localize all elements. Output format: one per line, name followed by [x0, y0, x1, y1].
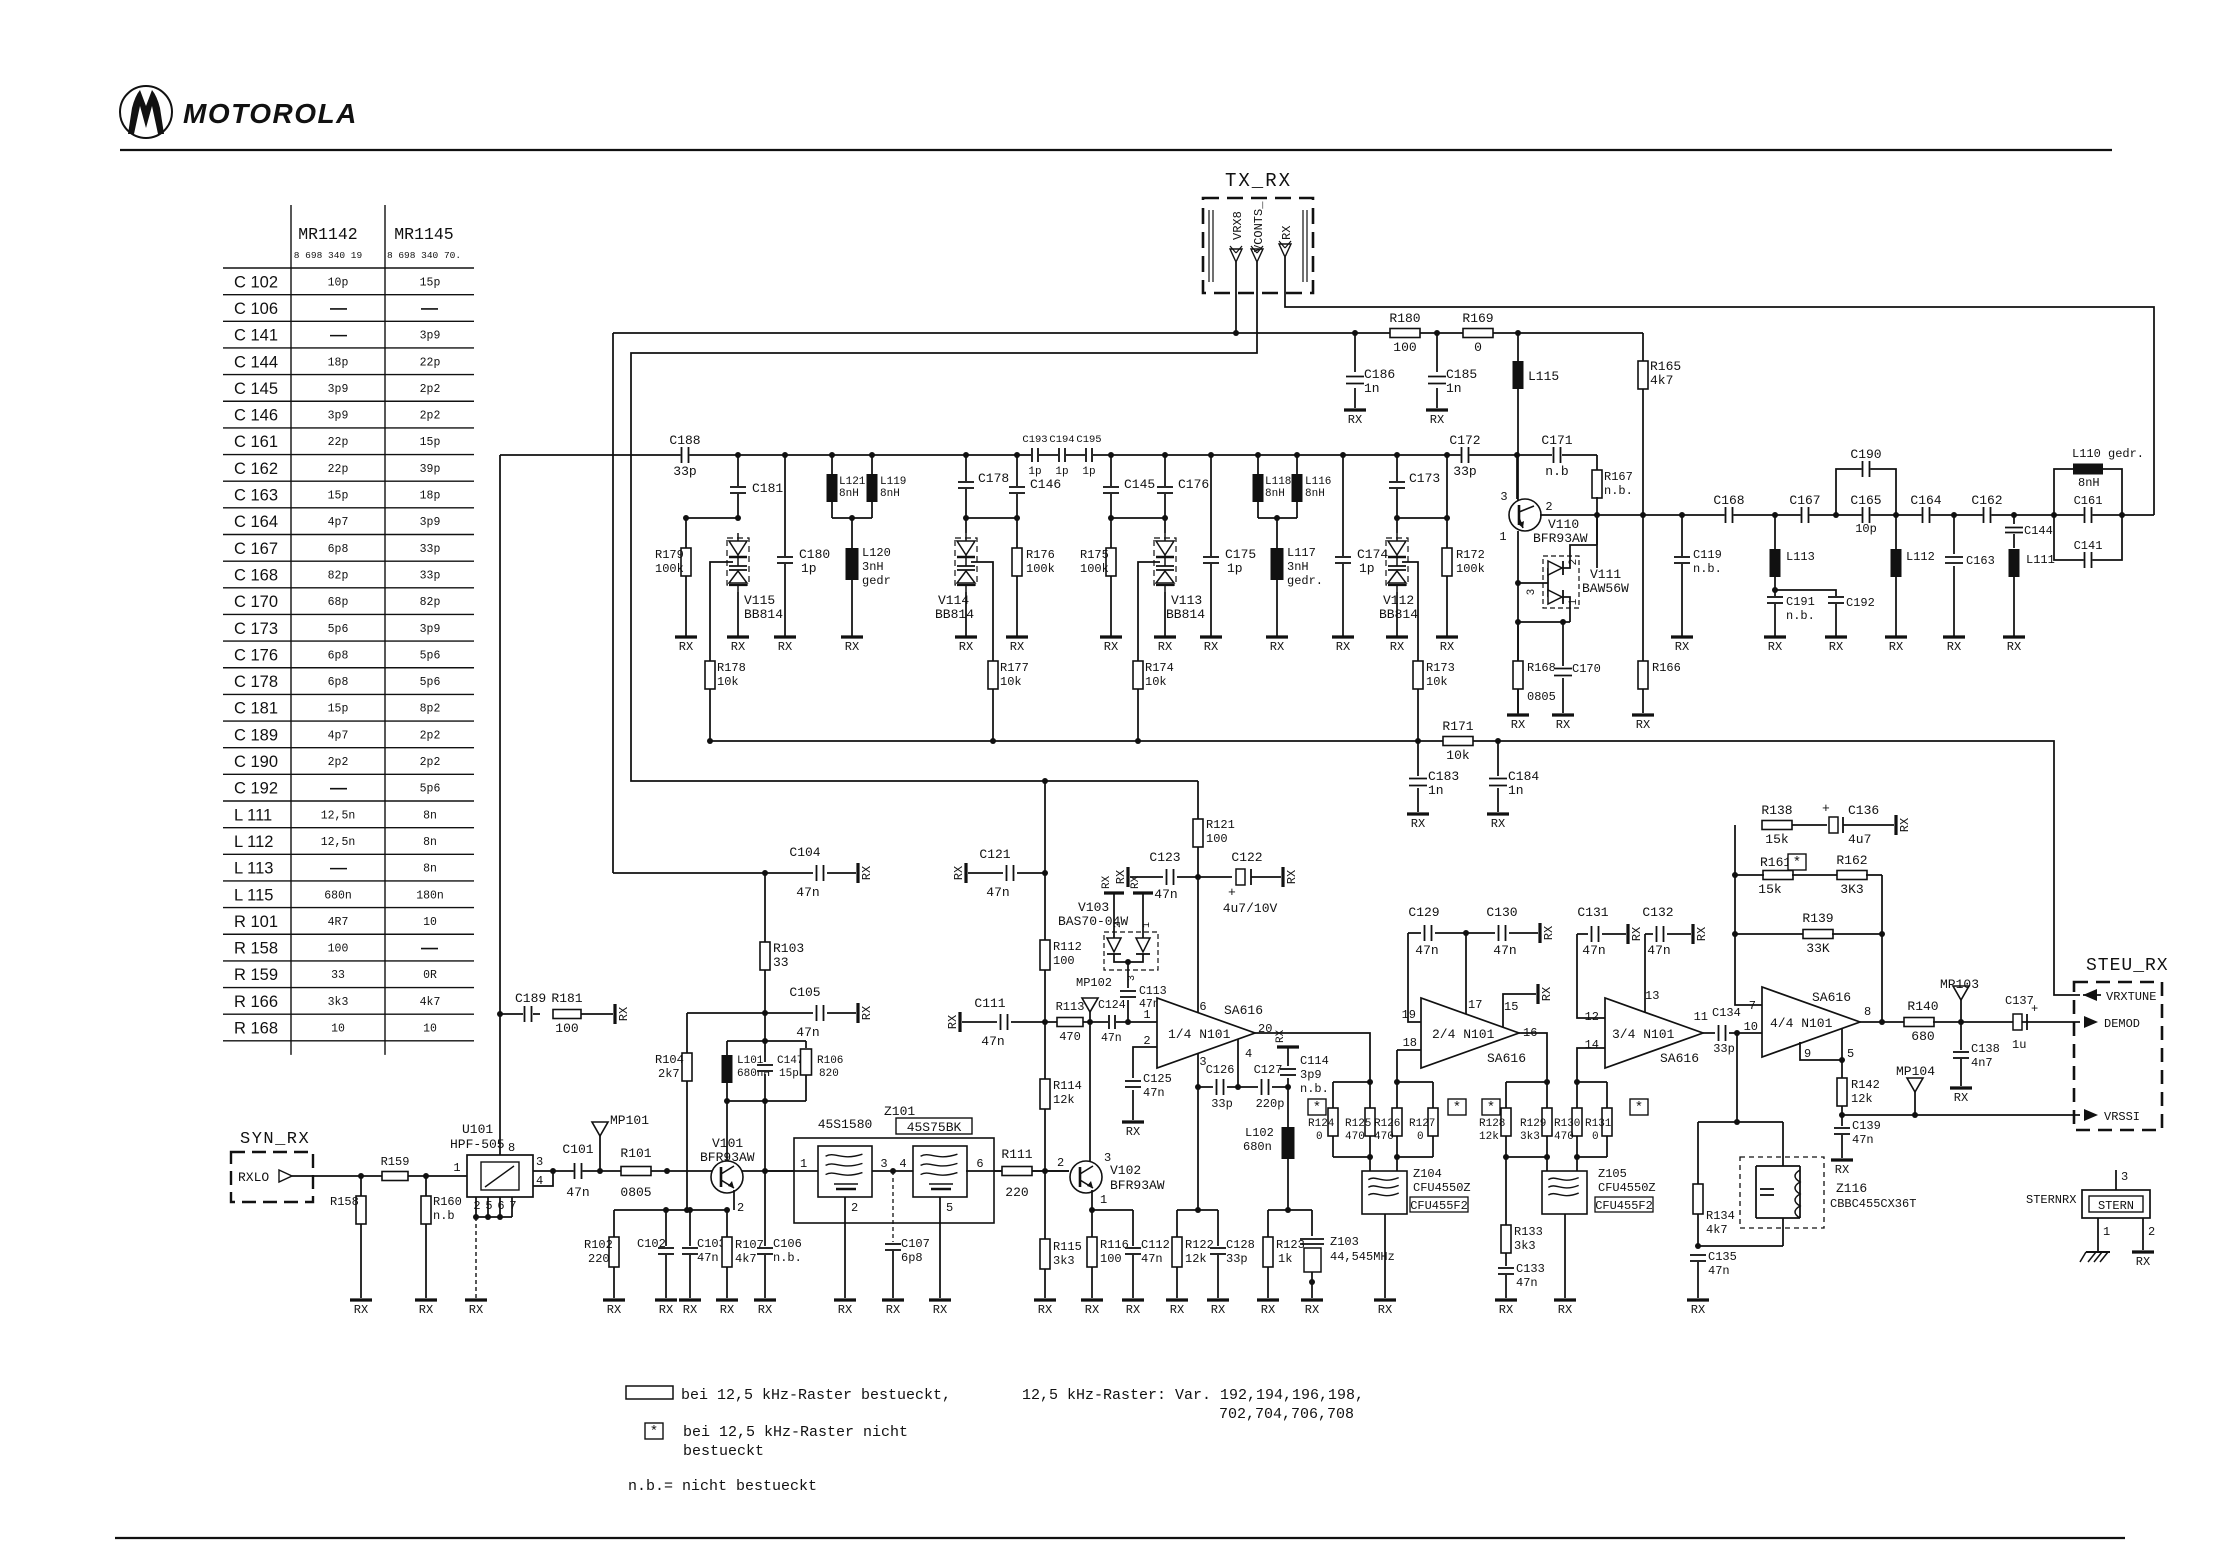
- wire U101 ground pins: [475, 1197, 477, 1217]
- table row L111: [223, 800, 474, 802]
- svg-text:8: 8: [1864, 1005, 1871, 1019]
- svg-text:220: 220: [1005, 1185, 1028, 1200]
- svg-text:*: *: [650, 1424, 658, 1440]
- wire C146 junction to V114: [966, 517, 1017, 519]
- wire varactor segment 2: [1111, 517, 1165, 519]
- svg-text:RX: RX: [860, 866, 874, 880]
- svg-text:RX: RX: [1430, 413, 1444, 427]
- svg-text:RXLO: RXLO: [238, 1170, 269, 1185]
- svg-text:C112: C112: [1141, 1238, 1170, 1252]
- svg-text:C167: C167: [1789, 493, 1820, 508]
- capacitor C173: [1396, 455, 1398, 481]
- inductor L113: [1774, 515, 1776, 549]
- pin VRXTUNE of STEU_RX: [2083, 989, 2097, 1001]
- ground RX under R123: [1257, 1298, 1279, 1301]
- resistor R161 15k: [1763, 871, 1793, 880]
- wire pin3 down: [1197, 1053, 1199, 1210]
- node C176 stub: [1162, 452, 1168, 458]
- svg-text:4p7: 4p7: [328, 729, 349, 742]
- resistor R102 220: [613, 1210, 615, 1238]
- svg-text:8n: 8n: [423, 863, 437, 876]
- svg-text:2p2: 2p2: [420, 383, 441, 396]
- wire collector output to Z101: [764, 1101, 766, 1171]
- ground RX under C135: [1687, 1298, 1709, 1301]
- svg-text:RX: RX: [959, 640, 973, 654]
- svg-text:C171: C171: [1541, 433, 1572, 448]
- svg-text:47n: 47n: [566, 1185, 589, 1200]
- wire VRX8 rail: [1235, 262, 1237, 333]
- svg-text:0: 0: [1592, 1131, 1599, 1143]
- ground RX right of C105: [856, 1003, 859, 1023]
- wire R161 left join: [1735, 874, 1764, 876]
- svg-text:L 113: L 113: [234, 860, 273, 878]
- svg-text:Z104: Z104: [1413, 1167, 1442, 1181]
- svg-text:100: 100: [328, 943, 349, 956]
- wire Z105 out to R130: [1576, 1157, 1578, 1171]
- svg-text:R122: R122: [1185, 1238, 1214, 1252]
- svg-text:100: 100: [1393, 340, 1416, 355]
- svg-text:33p: 33p: [1713, 1042, 1735, 1056]
- varactor V113 BB814: [1154, 538, 1176, 585]
- resistor R125 470: [1369, 1082, 1371, 1108]
- svg-text:100: 100: [1053, 954, 1075, 968]
- svg-text:13: 13: [1645, 989, 1659, 1003]
- svg-text:12k: 12k: [1851, 1092, 1873, 1106]
- svg-text:RX: RX: [1348, 413, 1362, 427]
- svg-text:C 190: C 190: [234, 753, 278, 771]
- svg-text:C 161: C 161: [234, 433, 278, 451]
- resistor R112 100: [1040, 940, 1050, 970]
- svg-text:R175: R175: [1080, 548, 1109, 562]
- node VCONTS branch to SA616 supply: [1042, 778, 1048, 784]
- capacitor C127 220p: [1238, 1086, 1258, 1088]
- svg-text:MP101: MP101: [610, 1113, 649, 1128]
- svg-text:R179: R179: [655, 548, 684, 562]
- svg-text:RX: RX: [1270, 640, 1284, 654]
- wire V114 tap to R177: [971, 562, 993, 661]
- svg-text:15p: 15p: [328, 703, 349, 716]
- connector SYN_RX dashed box: [231, 1152, 313, 1202]
- ground RX under L112: [1885, 635, 1907, 638]
- svg-text:R 101: R 101: [234, 913, 278, 931]
- varactor V112 BB814: [1386, 538, 1408, 585]
- resistor R174 10k: [1133, 661, 1143, 689]
- capacitor C180 1p: [784, 455, 786, 556]
- svg-text:3p9: 3p9: [328, 383, 349, 396]
- svg-text:C191: C191: [1786, 595, 1815, 609]
- svg-text:680: 680: [1911, 1029, 1934, 1044]
- svg-text:2k7: 2k7: [658, 1067, 680, 1081]
- svg-text:3k3: 3k3: [1520, 1131, 1540, 1143]
- svg-text:18p: 18p: [328, 356, 349, 369]
- capacitor C144: [2013, 515, 2015, 524]
- ground RX under C184: [1487, 812, 1509, 815]
- filter Z101 block 2: [913, 1146, 967, 1197]
- svg-text:8n: 8n: [423, 809, 437, 822]
- resistor R115 3k3: [1040, 1239, 1050, 1269]
- svg-text:MR1142: MR1142: [298, 225, 357, 244]
- svg-text:RX: RX: [1211, 1303, 1225, 1317]
- table row C162: [223, 454, 474, 456]
- diode V111 BAW56W dual: [1543, 556, 1579, 608]
- svg-text:9: 9: [1804, 1047, 1811, 1061]
- svg-text:L118: L118: [1265, 476, 1291, 488]
- capacitor C162: [1983, 507, 1992, 523]
- svg-text:V110: V110: [1548, 517, 1579, 532]
- svg-text:33p: 33p: [1211, 1097, 1233, 1111]
- svg-text:MP102: MP102: [1076, 976, 1112, 990]
- node C175 stub: [1208, 452, 1214, 458]
- ground RX under C174: [1332, 635, 1354, 638]
- svg-text:C 163: C 163: [234, 487, 278, 505]
- svg-text:2/4 N101: 2/4 N101: [1432, 1027, 1495, 1042]
- resistor R131 0: [1606, 1082, 1608, 1108]
- wire discriminator top: [1698, 1121, 1783, 1123]
- svg-text:82p: 82p: [328, 569, 349, 582]
- svg-text:17: 17: [1468, 998, 1482, 1012]
- svg-text:12: 12: [1585, 1010, 1599, 1024]
- svg-text:DEMOD: DEMOD: [2104, 1017, 2140, 1031]
- svg-text:RX: RX: [1390, 640, 1404, 654]
- wire L121/L119 join: [832, 517, 872, 519]
- wire emitter line V101: [614, 1209, 727, 1211]
- svg-text:R116: R116: [1100, 1238, 1129, 1252]
- capacitor C113 47n: [1120, 990, 1136, 998]
- transistor V102 BFR93AW: [1070, 1161, 1102, 1193]
- svg-text:2p2: 2p2: [328, 756, 349, 769]
- wire amp1 output pin20: [1255, 1033, 1370, 1082]
- svg-text:C168: C168: [1713, 493, 1744, 508]
- svg-text:6p8: 6p8: [901, 1251, 923, 1265]
- ground RX under R116: [1081, 1298, 1103, 1301]
- capacitor C178: [965, 455, 967, 481]
- svg-text:3/4 N101: 3/4 N101: [1612, 1027, 1675, 1042]
- resistor R113 470: [1057, 1018, 1083, 1027]
- wire varactor segment 1: [686, 517, 738, 519]
- svg-text:n.b.: n.b.: [1300, 1082, 1329, 1096]
- table row C106: [223, 294, 474, 296]
- svg-text:R169: R169: [1462, 311, 1493, 326]
- svg-text:RX: RX: [659, 1303, 673, 1317]
- symbol bestueckt star R161: [1788, 854, 1806, 870]
- svg-text:C134: C134: [1712, 1006, 1741, 1020]
- svg-text:1/4 N101: 1/4 N101: [1168, 1027, 1231, 1042]
- ground RX under V114: [965, 592, 967, 637]
- svg-text:15p: 15p: [779, 1068, 799, 1080]
- svg-text:R106: R106: [817, 1055, 843, 1067]
- resistor R127 0: [1432, 1082, 1434, 1108]
- wire VRX8 rail left drop to IF supply: [612, 333, 614, 873]
- svg-text:4: 4: [1245, 1047, 1252, 1061]
- svg-text:12k: 12k: [1185, 1252, 1207, 1266]
- svg-text:RX: RX: [1835, 1163, 1849, 1177]
- svg-text:TX_RX: TX_RX: [1225, 170, 1292, 192]
- discriminator Z116 CBBC455CX36T: [1740, 1157, 1824, 1228]
- svg-text:12,5n: 12,5n: [321, 809, 356, 822]
- svg-text:RX: RX: [1829, 640, 1843, 654]
- svg-text:gedr.: gedr.: [1287, 574, 1323, 588]
- svg-text:10: 10: [331, 1023, 345, 1036]
- resistor R171 10k: [1443, 737, 1473, 746]
- inductor L102 680n: [1287, 1087, 1289, 1127]
- filter Z105 CFU455: [1542, 1171, 1587, 1214]
- svg-text:3: 3: [1127, 975, 1138, 981]
- wire pin14: [1577, 1048, 1605, 1082]
- capacitor C106 n.b.: [764, 1171, 766, 1246]
- resistor R160 n.b.: [425, 1176, 427, 1196]
- svg-text:3k3: 3k3: [328, 996, 349, 1009]
- svg-text:3p9: 3p9: [420, 330, 441, 343]
- svg-text:R112: R112: [1053, 940, 1082, 954]
- symbol bestueckt star R128: [1482, 1099, 1500, 1115]
- svg-text:RX: RX: [617, 1007, 631, 1021]
- pin VCONTS_ of TX_RX: [1251, 249, 1263, 262]
- table row C144: [223, 347, 474, 349]
- node V111 anode: [1515, 580, 1521, 586]
- svg-text:R181: R181: [551, 991, 582, 1006]
- svg-text:SYN_RX: SYN_RX: [240, 1130, 310, 1149]
- svg-text:V115: V115: [744, 593, 775, 608]
- table bottom rule: [223, 1040, 474, 1042]
- svg-text:8nH: 8nH: [1265, 488, 1285, 500]
- test point MP102: [1089, 1012, 1091, 1022]
- capacitor C135 47n: [1690, 1254, 1706, 1262]
- capacitor C163: [1953, 515, 1955, 554]
- wire Z116 bottom to R134: [1698, 1245, 1783, 1247]
- filter Z101 block 1: [818, 1146, 872, 1197]
- inductor L119 8nH: [869, 452, 875, 458]
- svg-text:10k: 10k: [717, 675, 739, 689]
- ground RX under C185: [1426, 408, 1448, 411]
- ground RX right of C122: [1281, 867, 1284, 887]
- svg-text:RX: RX: [1378, 1303, 1392, 1317]
- svg-text:CBBC455CX36T: CBBC455CX36T: [1830, 1197, 1916, 1211]
- capacitor C172: [1461, 447, 1470, 463]
- capacitor C101 47n: [574, 1163, 583, 1179]
- ground RX under R107: [716, 1298, 738, 1301]
- svg-text:1: 1: [1499, 530, 1506, 544]
- resistor R122 12k: [1176, 1210, 1178, 1238]
- svg-text:*: *: [1453, 1100, 1461, 1116]
- capacitor C129 47n: [1408, 932, 1421, 934]
- svg-text:33: 33: [773, 955, 789, 970]
- capacitor C126 33p: [1198, 1086, 1213, 1088]
- svg-text:33p: 33p: [420, 543, 441, 556]
- ground RX left of C121: [964, 863, 967, 883]
- svg-text:4k7: 4k7: [420, 996, 441, 1009]
- table row C145: [223, 374, 474, 376]
- wire VCONTS rail: [631, 262, 1257, 781]
- capacitor C119 n.b.: [1681, 515, 1683, 556]
- svg-text:R174: R174: [1145, 661, 1174, 675]
- table row R166: [223, 987, 474, 989]
- wire amp2 output pin16: [1519, 1033, 1547, 1082]
- wire V101 emitter to R107: [733, 1190, 735, 1210]
- svg-text:1k: 1k: [1278, 1252, 1292, 1266]
- ground RX under C186: [1344, 408, 1366, 411]
- svg-text:C 146: C 146: [234, 407, 278, 425]
- svg-text:L102: L102: [1245, 1126, 1274, 1140]
- svg-text:R130: R130: [1554, 1118, 1580, 1130]
- svg-text:220: 220: [588, 1252, 610, 1266]
- wire V115 tap to R178: [710, 562, 733, 661]
- wire Z101 pin5 ground: [939, 1197, 941, 1298]
- wire pin12 to C131: [1577, 934, 1605, 1018]
- wire V111 to R167: [1596, 515, 1598, 545]
- svg-text:RX: RX: [860, 1006, 874, 1020]
- capacitor C190 bypass loop: [1836, 469, 1896, 515]
- node R142 bottom: [1839, 1112, 1845, 1118]
- capacitor C132 47n: [1645, 933, 1653, 935]
- svg-text:RX: RX: [1691, 1303, 1705, 1317]
- wire V102 emitter: [1091, 1190, 1093, 1210]
- table row R101: [223, 907, 474, 909]
- table column line 2: [384, 205, 386, 1055]
- svg-text:RX: RX: [886, 1303, 900, 1317]
- ground RX under R168: [1507, 713, 1529, 716]
- node C184: [1495, 738, 1501, 744]
- resistor R181 100: [553, 1010, 581, 1019]
- svg-text:RX: RX: [1675, 640, 1689, 654]
- svg-text:8 698 340 70.: 8 698 340 70.: [387, 250, 461, 261]
- svg-text:SA616: SA616: [1812, 990, 1851, 1005]
- resistor R129 3k3: [1546, 1082, 1548, 1108]
- svg-text:BB814: BB814: [935, 607, 974, 622]
- svg-text:3p9: 3p9: [420, 623, 441, 636]
- svg-text:2p2: 2p2: [420, 729, 441, 742]
- resistor R176 100k: [1012, 548, 1022, 576]
- wire V112 tap to R173: [1402, 562, 1418, 661]
- svg-text:1: 1: [1568, 598, 1580, 605]
- ground RX under U101: [465, 1298, 487, 1301]
- resistor R138 15k: [1762, 821, 1792, 830]
- svg-text:15k: 15k: [1765, 832, 1789, 847]
- svg-text:R166: R166: [1652, 661, 1681, 675]
- svg-text:3K3: 3K3: [1840, 882, 1863, 897]
- svg-text:C147: C147: [777, 1055, 803, 1067]
- svg-text:RX: RX: [1540, 987, 1554, 1001]
- svg-text:47n: 47n: [986, 885, 1009, 900]
- svg-text:RX: RX: [845, 640, 859, 654]
- svg-text:SA616: SA616: [1224, 1003, 1263, 1018]
- svg-text:C164: C164: [1910, 493, 1941, 508]
- svg-text:R159: R159: [381, 1155, 410, 1169]
- resistor R178 10k: [705, 661, 715, 689]
- svg-text:8nH: 8nH: [880, 488, 900, 500]
- svg-text:3: 3: [880, 1157, 887, 1171]
- svg-text:3nH: 3nH: [862, 560, 884, 574]
- svg-text:RX: RX: [419, 1303, 433, 1317]
- svg-text:R180: R180: [1389, 311, 1420, 326]
- svg-text:12k: 12k: [1479, 1131, 1499, 1143]
- svg-text:RX: RX: [1556, 718, 1570, 732]
- capacitor C193: [1031, 448, 1039, 462]
- svg-text:1p: 1p: [1082, 466, 1095, 478]
- node C144 stub: [2011, 512, 2017, 518]
- svg-text:RX: RX: [838, 1303, 852, 1317]
- wire Z101 out to V102: [994, 1170, 1069, 1172]
- table row R158: [223, 933, 474, 935]
- svg-text:C123: C123: [1149, 850, 1180, 865]
- svg-text:8nH: 8nH: [839, 488, 859, 500]
- svg-text:47n: 47n: [1141, 1252, 1163, 1266]
- table row L113: [223, 853, 474, 855]
- svg-text:0: 0: [1316, 1131, 1323, 1143]
- svg-text:STEU_RX: STEU_RX: [2086, 956, 2169, 976]
- svg-text:2: 2: [851, 1201, 858, 1215]
- svg-text:Z103: Z103: [1330, 1235, 1359, 1249]
- svg-text:14: 14: [1585, 1038, 1599, 1052]
- ground RX under Z101 pin2: [834, 1298, 856, 1301]
- ground RX left of C111: [958, 1012, 961, 1032]
- wire RXLO to U101: [292, 1175, 467, 1177]
- svg-text:100k: 100k: [655, 562, 684, 576]
- svg-text:C128: C128: [1226, 1238, 1255, 1252]
- ground RX under R179: [675, 635, 697, 638]
- svg-text:C186: C186: [1364, 367, 1395, 382]
- capacitor C124 47n: [1108, 1015, 1116, 1029]
- resistor R172 100k: [1442, 548, 1452, 576]
- svg-text:C184: C184: [1508, 769, 1539, 784]
- resistor R169: [1463, 329, 1493, 338]
- svg-text:C175: C175: [1225, 547, 1256, 562]
- capacitor C128 33p: [1217, 1210, 1219, 1246]
- svg-text:10p: 10p: [1855, 522, 1877, 536]
- wire V102 emitter line: [1092, 1209, 1133, 1211]
- op-amp 2/4 N101 SA616: [1421, 998, 1519, 1068]
- svg-text:2: 2: [1057, 1156, 1064, 1170]
- wire VRXTUNE bus: [710, 741, 2080, 995]
- svg-text:R171: R171: [1442, 719, 1473, 734]
- wire VCONTS to R121: [1197, 781, 1199, 819]
- svg-text:R111: R111: [1001, 1147, 1032, 1162]
- svg-text:C119: C119: [1693, 548, 1722, 562]
- svg-text:33K: 33K: [1806, 941, 1830, 956]
- svg-text:BB814: BB814: [744, 607, 783, 622]
- svg-text:*: *: [1793, 855, 1801, 871]
- svg-text:C144: C144: [2024, 524, 2053, 538]
- capacitor C131 47n: [1577, 933, 1588, 935]
- resistor R106 820: [805, 1041, 807, 1048]
- svg-text:V102: V102: [1110, 1163, 1141, 1178]
- svg-text:V103: V103: [1078, 900, 1109, 915]
- svg-text:6: 6: [976, 1157, 983, 1171]
- ground RX right of R181: [613, 1004, 616, 1024]
- svg-text:n.b: n.b: [433, 1209, 455, 1223]
- svg-text:R 159: R 159: [234, 966, 278, 984]
- svg-text:C146: C146: [1030, 477, 1061, 492]
- svg-text:RX: RX: [607, 1303, 621, 1317]
- table row C102: [223, 267, 474, 269]
- Motorola logo emblem: [120, 86, 172, 138]
- svg-text:8p2: 8p2: [420, 703, 441, 716]
- svg-text:4k7: 4k7: [735, 1252, 757, 1266]
- svg-text:22p: 22p: [420, 356, 441, 369]
- svg-text:RX: RX: [720, 1303, 734, 1317]
- svg-text:47n: 47n: [1708, 1264, 1730, 1278]
- resistor R139 33K: [1735, 933, 1804, 935]
- legend bestueckt rectangle: [626, 1386, 673, 1399]
- svg-text:7: 7: [509, 1199, 516, 1213]
- svg-text:5: 5: [946, 1201, 953, 1215]
- svg-text:10: 10: [423, 1023, 437, 1036]
- resistor R104 2k7: [686, 1013, 688, 1053]
- ground RX under C128: [1207, 1298, 1229, 1301]
- svg-text:L120: L120: [862, 546, 891, 560]
- svg-text:R158: R158: [330, 1195, 359, 1209]
- ground RX under C170: [1552, 713, 1574, 716]
- svg-text:47n: 47n: [1415, 943, 1438, 958]
